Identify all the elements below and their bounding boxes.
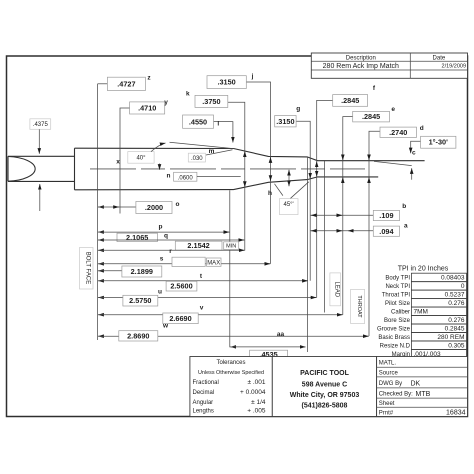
svg-text:.2845: .2845 xyxy=(362,112,380,121)
svg-text:.0600: .0600 xyxy=(178,175,194,181)
svg-text:Basic Brass: Basic Brass xyxy=(378,335,410,341)
svg-text:Unless Otherwise Specified: Unless Otherwise Specified xyxy=(198,370,264,376)
dim w 2.8690 xyxy=(98,323,369,342)
reamer pilot outline xyxy=(8,156,75,181)
svg-text:BOLT FACE: BOLT FACE xyxy=(85,252,91,284)
svg-text:+ 0.0004: + 0.0004 xyxy=(240,389,266,396)
dim y .4710 xyxy=(120,99,168,214)
dim l .4550 xyxy=(183,115,233,143)
svg-text:± 1/4: ± 1/4 xyxy=(251,399,266,406)
svg-text:280 REM: 280 REM xyxy=(437,334,464,341)
svg-text:MATL.: MATL. xyxy=(379,361,397,367)
svg-text:.4710: .4710 xyxy=(138,104,156,113)
svg-text:.109: .109 xyxy=(379,211,393,220)
svg-text:y: y xyxy=(164,99,168,106)
svg-text:2.1065: 2.1065 xyxy=(126,233,148,242)
dim t 2.5600 xyxy=(98,273,308,291)
svg-text:k: k xyxy=(186,90,190,97)
svg-text:j: j xyxy=(251,73,254,80)
dim n .0600 xyxy=(160,164,241,182)
dim o .2000 xyxy=(98,201,180,214)
svg-text:PACIFIC TOOL: PACIFIC TOOL xyxy=(300,370,349,377)
svg-text:2/19/2009: 2/19/2009 xyxy=(442,64,466,70)
svg-text:2.5750: 2.5750 xyxy=(129,296,151,305)
svg-text:Resize N.D: Resize N.D xyxy=(380,343,411,349)
svg-text:aa: aa xyxy=(277,331,285,338)
extension line lead xyxy=(324,161,326,313)
dim p 2.1065 xyxy=(98,224,230,243)
svg-text:2.6690: 2.6690 xyxy=(169,314,191,323)
svg-text:0.5237: 0.5237 xyxy=(445,292,465,299)
svg-text:1°-30': 1°-30' xyxy=(429,138,449,147)
svg-text:LEAD: LEAD xyxy=(333,281,339,297)
leade angle line xyxy=(374,161,412,165)
svg-text:Source: Source xyxy=(379,371,399,377)
BOLT FACE label xyxy=(80,248,94,290)
dim 40° shoulder angle xyxy=(116,142,233,165)
svg-text:c: c xyxy=(412,150,416,157)
svg-text:.3750: .3750 xyxy=(202,97,220,106)
dim v 2.6690 xyxy=(98,305,343,324)
dim g .3150 throat xyxy=(275,106,311,281)
dim b .109 xyxy=(311,203,407,221)
svg-text:Description: Description xyxy=(346,56,376,62)
svg-text:g: g xyxy=(296,106,300,113)
dim s 2.1899 xyxy=(98,256,164,278)
svg-text:+ .005: + .005 xyxy=(247,408,266,415)
dim a .094 xyxy=(311,222,408,236)
dim c 1°-30' leade angle xyxy=(411,136,456,179)
dim d .2740 xyxy=(369,125,424,336)
svg-text:0.276: 0.276 xyxy=(448,317,465,324)
dim u 2.5750 xyxy=(98,289,317,307)
svg-text:Lengths: Lengths xyxy=(193,409,214,415)
svg-text:TPI in 20 Inches: TPI in 20 Inches xyxy=(398,266,449,273)
dim aa .4535 xyxy=(230,331,306,359)
page border xyxy=(7,56,468,417)
shoulder and neck bottom outline xyxy=(234,177,379,190)
svg-text:2.1899: 2.1899 xyxy=(131,267,153,276)
svg-text:.3150: .3150 xyxy=(217,78,235,87)
svg-text:b: b xyxy=(402,203,406,210)
svg-text:16834: 16834 xyxy=(446,410,466,417)
dim m .030 xyxy=(188,148,232,162)
svg-text:Groove Size: Groove Size xyxy=(377,326,411,332)
svg-text:.4727: .4727 xyxy=(117,80,135,89)
svg-text:Prnt#: Prnt# xyxy=(379,410,394,416)
svg-text:Checked By:: Checked By: xyxy=(379,392,413,398)
dim e .2845 xyxy=(343,106,396,315)
svg-text:2.1542: 2.1542 xyxy=(187,241,209,250)
svg-text:Caliber: Caliber xyxy=(391,309,410,315)
svg-text:e: e xyxy=(391,106,395,113)
svg-text:Angular: Angular xyxy=(193,400,214,406)
svg-text:Neck TPI: Neck TPI xyxy=(385,284,410,290)
svg-text:o: o xyxy=(176,201,180,208)
svg-text:.094: .094 xyxy=(379,227,394,236)
svg-text:a: a xyxy=(404,222,408,229)
chamber body outline xyxy=(75,148,234,190)
svg-text:.3150: .3150 xyxy=(276,117,294,126)
svg-text:.2740: .2740 xyxy=(389,128,407,137)
extension line start of taper xyxy=(306,157,308,352)
svg-text:n: n xyxy=(167,172,171,179)
svg-text:Bore Size: Bore Size xyxy=(384,318,411,324)
svg-text:p: p xyxy=(159,224,163,231)
dim h 45° case mouth xyxy=(268,170,309,215)
title block table xyxy=(311,53,467,78)
dim r MAX xyxy=(98,248,271,267)
svg-text:Date: Date xyxy=(433,56,446,62)
svg-text:2.5600: 2.5600 xyxy=(170,282,192,291)
svg-text:.2845: .2845 xyxy=(341,96,359,105)
dim z .4727 xyxy=(98,75,152,91)
dim j .3150 neck xyxy=(207,73,271,264)
svg-text:0.2845: 0.2845 xyxy=(445,326,465,333)
svg-text:Fractional: Fractional xyxy=(193,380,219,386)
dim q 2.1542 MIN xyxy=(98,233,245,251)
svg-text:0.08403: 0.08403 xyxy=(441,275,465,282)
TPI table xyxy=(377,266,467,359)
svg-text:(541)826-5808: (541)826-5808 xyxy=(302,403,348,410)
LEAD label xyxy=(330,273,341,306)
svg-text:d: d xyxy=(420,125,424,132)
svg-text:40°: 40° xyxy=(136,156,146,162)
svg-text:.030: .030 xyxy=(191,156,203,162)
svg-text:280 Rem Ack Imp Match: 280 Rem Ack Imp Match xyxy=(323,63,399,70)
THROAT label xyxy=(351,289,365,323)
svg-text:l: l xyxy=(217,120,219,127)
svg-text:± .001: ± .001 xyxy=(247,379,265,386)
svg-text:x: x xyxy=(116,159,120,166)
bolt face datum line xyxy=(97,84,99,340)
svg-text:Pilot Size: Pilot Size xyxy=(385,301,411,307)
tolerances block xyxy=(190,357,272,417)
shoulder and neck top outline xyxy=(234,149,425,161)
svg-text:v: v xyxy=(200,305,204,312)
svg-text:0.276: 0.276 xyxy=(448,300,465,307)
dim k .3750 xyxy=(186,90,245,250)
svg-text:White City, OR 97503: White City, OR 97503 xyxy=(290,392,360,399)
pacific tool block xyxy=(272,357,376,417)
svg-text:Tolerances: Tolerances xyxy=(216,360,245,366)
svg-text:.4375: .4375 xyxy=(33,122,49,128)
svg-text:h: h xyxy=(268,190,272,197)
svg-text:MIN: MIN xyxy=(226,244,236,250)
svg-text:w: w xyxy=(162,323,169,330)
svg-text:598 Avenue C: 598 Avenue C xyxy=(302,382,347,389)
svg-text:Sheet: Sheet xyxy=(379,401,395,407)
svg-text:.2000: .2000 xyxy=(145,203,163,212)
svg-text:Body TPI: Body TPI xyxy=(385,276,410,282)
svg-text:45°': 45°' xyxy=(283,202,293,208)
svg-text:THROAT: THROAT xyxy=(356,295,362,318)
extension line shoulder base xyxy=(229,190,231,347)
svg-text:Throat TPI: Throat TPI xyxy=(382,293,411,299)
svg-text:.4550: .4550 xyxy=(189,118,207,127)
dim f .2845 xyxy=(317,85,376,297)
svg-text:q: q xyxy=(164,233,168,240)
svg-text:2.8690: 2.8690 xyxy=(127,331,149,340)
dim .4375 pilot diameter xyxy=(30,119,51,211)
svg-text:0: 0 xyxy=(461,283,465,290)
svg-text:MAX: MAX xyxy=(207,260,220,266)
svg-text:DK: DK xyxy=(411,381,421,388)
svg-text:0.305: 0.305 xyxy=(448,343,465,350)
svg-text:u: u xyxy=(158,289,162,296)
centerline xyxy=(90,168,365,170)
svg-text:MTB: MTB xyxy=(416,391,431,398)
drawing info table xyxy=(377,357,468,417)
svg-text:Decimal: Decimal xyxy=(193,390,215,396)
svg-text:7MM: 7MM xyxy=(414,309,428,316)
svg-text:DWG By: DWG By xyxy=(379,381,402,387)
svg-text:s: s xyxy=(160,256,164,263)
